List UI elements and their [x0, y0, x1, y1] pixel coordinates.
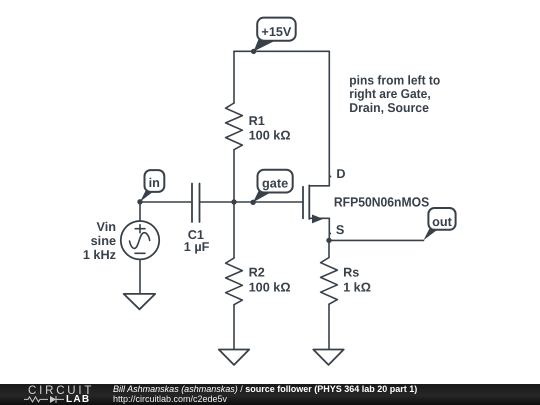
logo CircuitLab: [28, 385, 94, 397]
svg-text:R2: R2: [249, 265, 265, 279]
svg-text:sine: sine: [91, 234, 116, 248]
junction source node: [326, 238, 331, 243]
wire R1 to node: [233, 150, 235, 202]
value label C1 1 uF: [184, 228, 210, 254]
svg-text:right are Gate,: right are Gate,: [349, 86, 430, 101]
svg-text:1 kΩ: 1 kΩ: [343, 280, 371, 294]
net label gate: [250, 170, 292, 205]
svg-text:out: out: [432, 215, 453, 229]
value label R1 100 kOhm: [249, 114, 291, 143]
transistor M1 nMOS symbol: [303, 185, 329, 223]
ground below R2: [219, 350, 249, 365]
wire node to R2: [233, 202, 235, 258]
ground below Rs: [313, 350, 343, 365]
wire left vertical to R1: [233, 51, 235, 103]
net label in: [137, 170, 164, 204]
svg-text:Rs: Rs: [343, 265, 359, 279]
label Vin sine 1 kHz: [83, 220, 116, 262]
svg-text:D: D: [336, 167, 345, 181]
svg-text:Drain, Source: Drain, Source: [349, 100, 429, 115]
wire source to junction: [328, 218, 330, 240]
svg-text:100 kΩ: 100 kΩ: [249, 129, 291, 143]
net label +15V: [251, 18, 296, 55]
wire junction to Rs: [328, 240, 330, 257]
svg-text:R1: R1: [249, 114, 265, 128]
svg-text:100 kΩ: 100 kΩ: [249, 280, 291, 294]
footer url: [113, 394, 227, 404]
svg-text:gate: gate: [262, 176, 288, 190]
footer bar: [0, 384, 540, 405]
svg-text:pins from left to: pins from left to: [349, 72, 440, 87]
value label Rs 1 kOhm: [343, 265, 371, 294]
pin label D drain: [329, 167, 345, 181]
svg-text:1 kHz: 1 kHz: [83, 248, 116, 262]
wire R2 to ground: [233, 305, 235, 349]
resistor R2: [226, 258, 243, 305]
wire C1 to gate: [200, 201, 303, 203]
ground below V1: [124, 294, 156, 309]
wire drain to rail: [328, 51, 330, 186]
svg-text:S: S: [336, 223, 344, 237]
wire in to C1: [140, 201, 192, 203]
footer credit line: [113, 384, 417, 394]
svg-text:in: in: [149, 176, 160, 190]
capacitor C1: [192, 184, 200, 223]
logo squiggle: [24, 396, 64, 403]
net label out: [424, 208, 456, 240]
pin label S source: [329, 223, 344, 237]
value label R2 100 kOhm: [249, 265, 291, 294]
wire out: [329, 239, 424, 241]
svg-text:Vin: Vin: [96, 220, 116, 234]
wire top rail: [234, 50, 329, 52]
junction node gate-divider: [231, 199, 236, 204]
part label RFP50N06nMOS: [334, 195, 429, 210]
annotation pins text: [349, 72, 440, 115]
svg-text:+15V: +15V: [261, 25, 292, 39]
resistor R1: [226, 103, 243, 150]
svg-text:RFP50N06nMOS: RFP50N06nMOS: [334, 195, 429, 210]
svg-text:1 µF: 1 µF: [184, 240, 210, 254]
resistor Rs: [321, 258, 338, 305]
voltage source V1 Vin: [121, 202, 159, 294]
wire Rs to ground: [328, 304, 330, 349]
